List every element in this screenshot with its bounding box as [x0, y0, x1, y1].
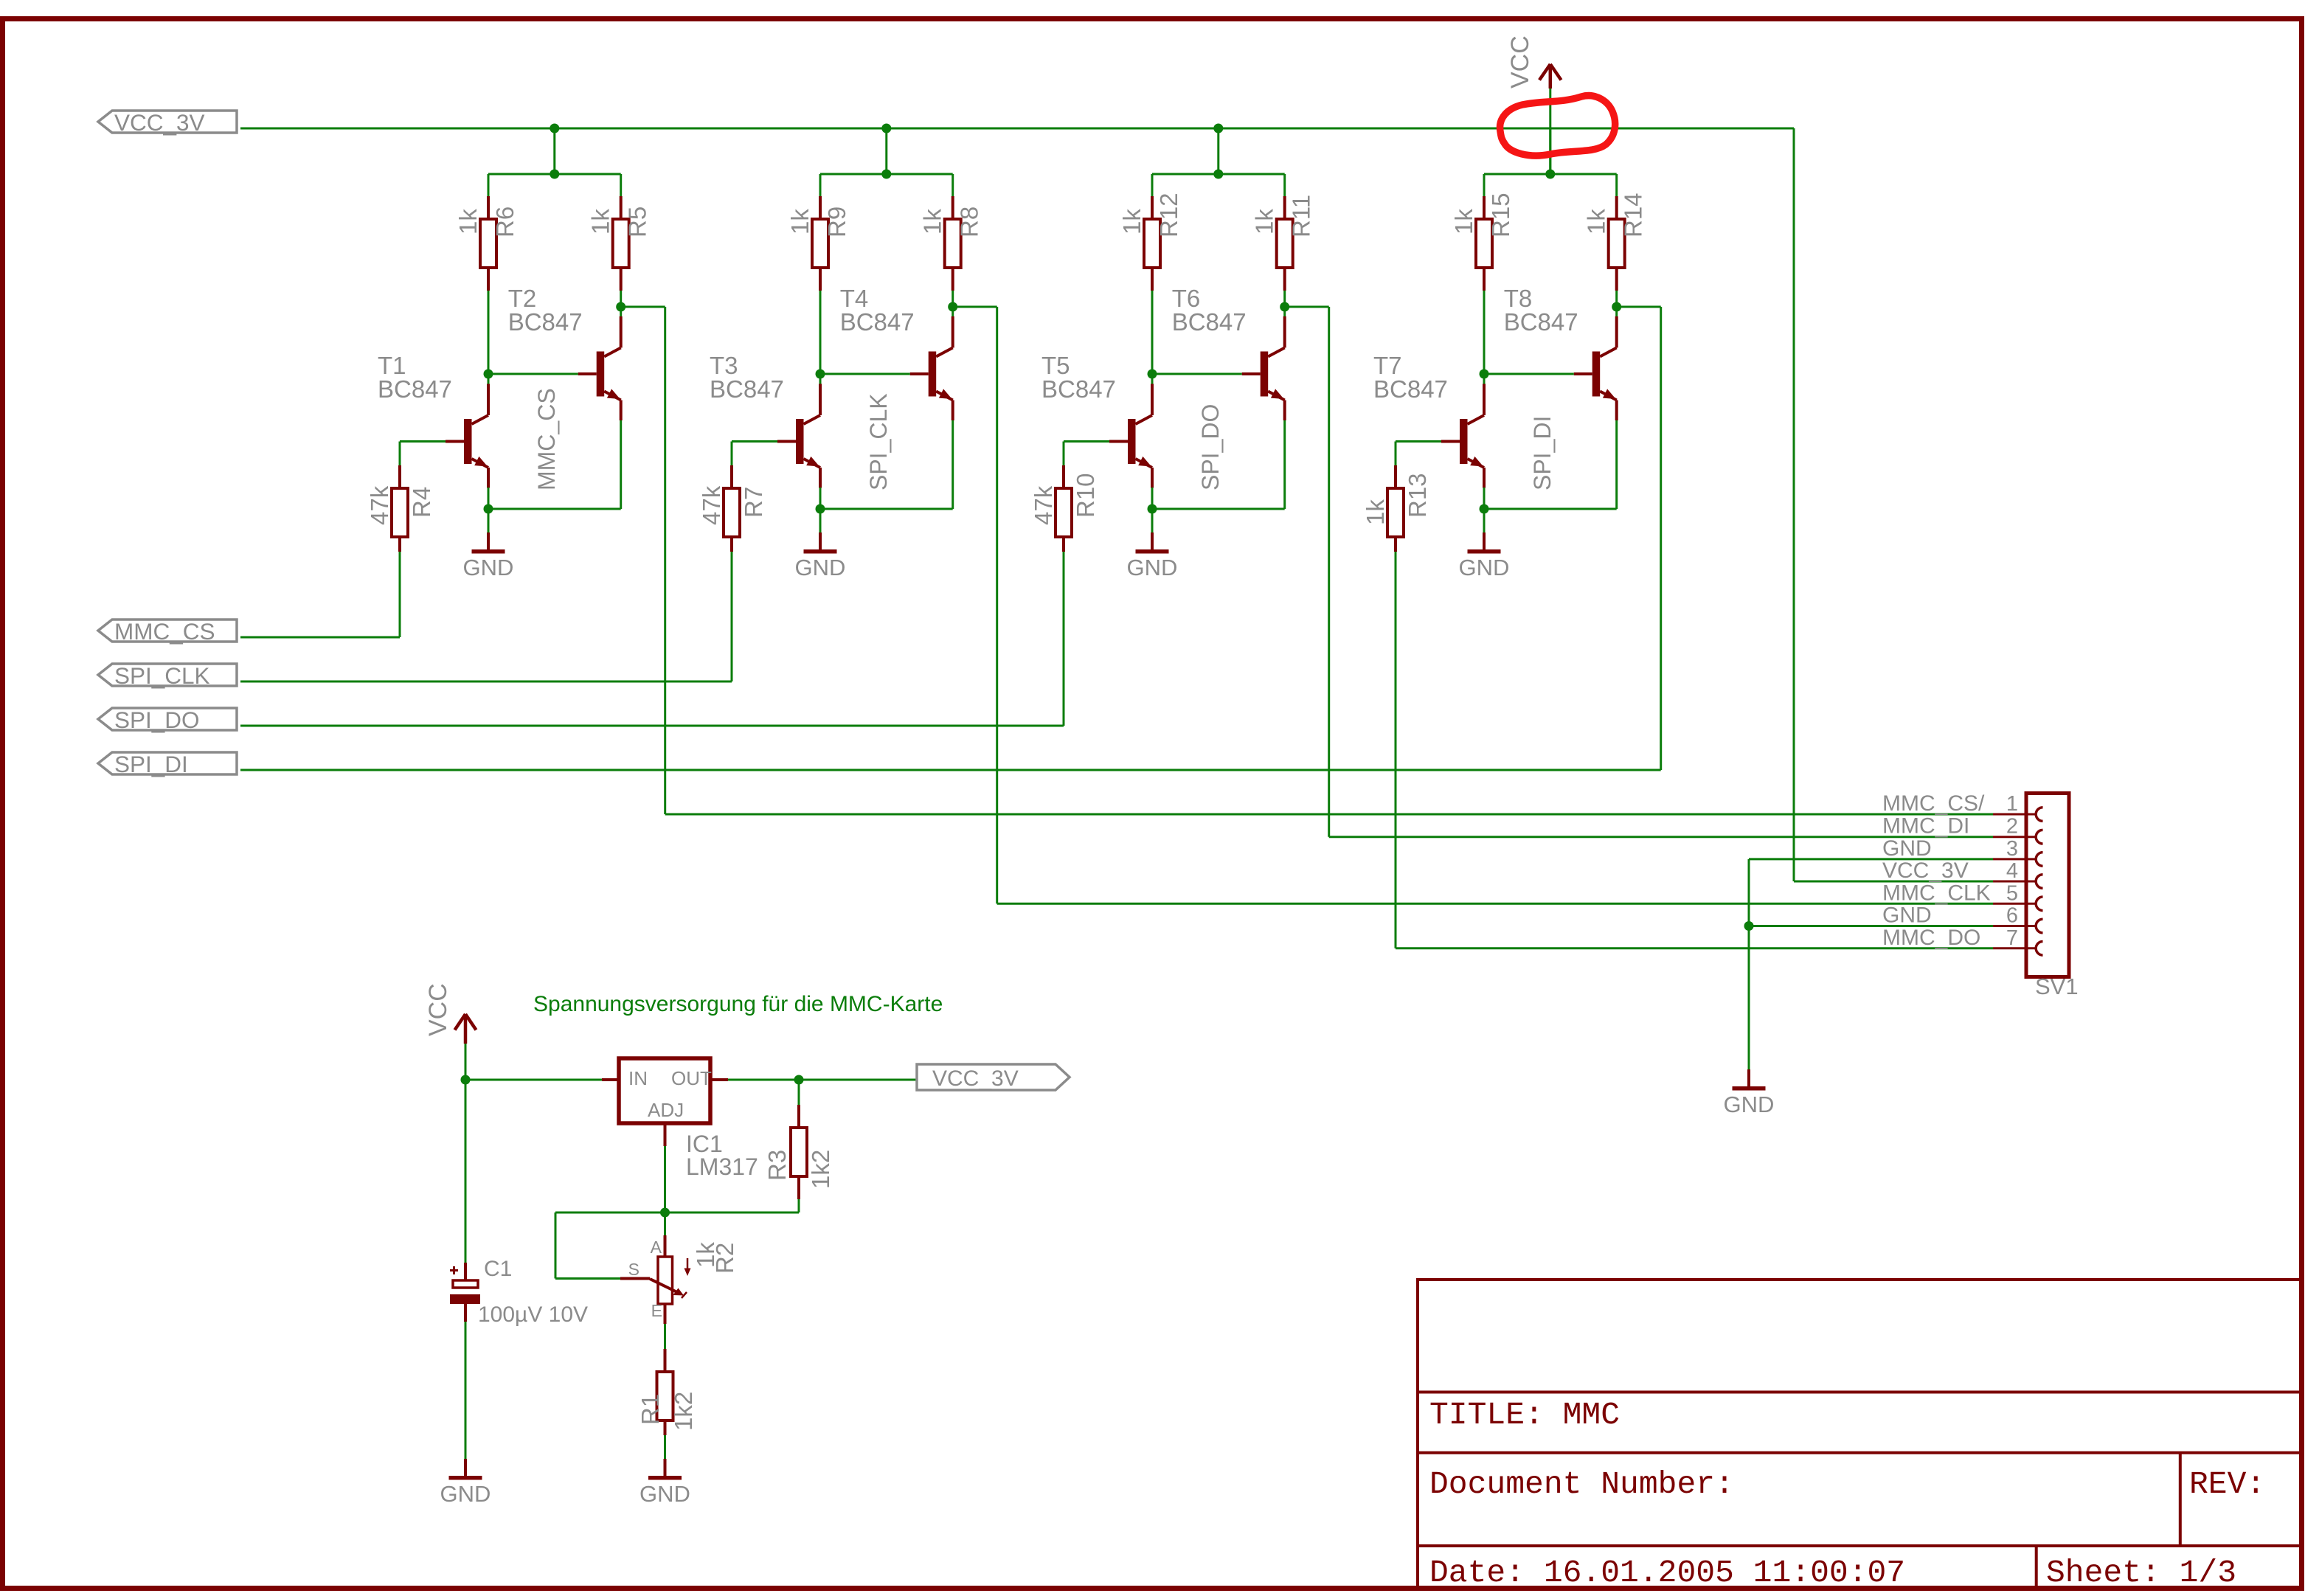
svg-text:BC847: BC847 — [840, 308, 915, 336]
wire base T7 — [1396, 440, 1441, 443]
ground — [465, 1435, 467, 1459]
svg-text:R3: R3 — [763, 1150, 791, 1181]
pin 5 MMC_CLK — [1993, 903, 2036, 905]
wire T1 collector to T2 base — [1152, 373, 1242, 375]
junction VCC_3V cell 2 — [881, 124, 891, 133]
wire down to R13 — [1395, 442, 1397, 466]
svg-text:Document Number:: Document Number: — [1429, 1466, 1734, 1502]
wire down to R10 — [1063, 442, 1065, 466]
wire T2 collector out — [621, 306, 665, 308]
svg-text:100µV 10V: 100µV 10V — [478, 1302, 588, 1327]
wire MMC_DI vertical — [1328, 307, 1330, 837]
wire cell rail — [820, 173, 953, 176]
wire down to R4 — [399, 442, 401, 466]
wire R8 to T4 collector — [952, 291, 954, 316]
junction ADJ — [660, 1208, 670, 1218]
wire emitters join — [820, 508, 953, 510]
wire to R5 — [620, 174, 622, 196]
svg-text:R2: R2 — [711, 1243, 738, 1274]
svg-text:IN: IN — [628, 1067, 648, 1089]
wire to R6 — [488, 174, 490, 196]
svg-text:GND: GND — [463, 555, 514, 580]
wire MMC_DI to SV1 pin 2 — [1329, 836, 1993, 838]
svg-text:BC847: BC847 — [1373, 375, 1448, 403]
resistor R12 body — [1144, 219, 1160, 268]
svg-text:MMC_DI: MMC_DI — [1882, 814, 1969, 839]
wire VCC to IN node — [465, 1044, 467, 1080]
wire R6 to T1 collector / T2 base — [488, 291, 490, 395]
svg-text:Spannungsversorgung für die MM: Spannungsversorgung für die MMC-Karte — [533, 992, 943, 1016]
svg-text:R13: R13 — [1404, 473, 1431, 518]
svg-text:MMC_DO: MMC_DO — [1882, 926, 1980, 950]
ground — [1483, 509, 1486, 532]
svg-text:E: E — [651, 1301, 662, 1320]
ground — [488, 509, 490, 532]
junction emitter node — [484, 504, 493, 514]
wire cell rail — [1152, 173, 1285, 176]
svg-text:S: S — [628, 1260, 639, 1279]
wire R2 to R1 — [664, 1324, 666, 1349]
wire to R12 — [1151, 174, 1154, 196]
voltage regulator IC1 LM317 — [619, 1058, 710, 1123]
wire MMC_CS/ vertical — [664, 307, 666, 814]
power symbol VCC (bottom left) — [464, 1014, 468, 1044]
wire MMC_CLK vertical — [996, 307, 998, 903]
svg-text:R4: R4 — [408, 487, 435, 518]
svg-text:1k: 1k — [1251, 209, 1278, 235]
wire T1 emitter down — [488, 488, 490, 509]
svg-text:R9: R9 — [823, 207, 850, 237]
svg-text:1k: 1k — [1450, 209, 1477, 235]
wire cell rail — [1484, 173, 1617, 176]
junction base node — [484, 369, 493, 379]
junction collector output — [616, 302, 625, 312]
svg-text:GND: GND — [795, 555, 846, 580]
svg-text:6: 6 — [2006, 904, 2018, 928]
svg-text:TITLE: MMC: TITLE: MMC — [1429, 1397, 1620, 1433]
svg-text:4: 4 — [2006, 859, 2018, 883]
svg-text:R14: R14 — [1620, 192, 1647, 237]
wire T2 emitter down — [952, 420, 954, 509]
trimmer R2 — [664, 1235, 667, 1257]
wire MMC_DO to SV1 pin 7 — [1396, 947, 1993, 949]
resistor R1 body — [657, 1372, 673, 1420]
wire MMC_CLK to SV1 pin 5 — [997, 903, 1993, 905]
wire VCC net vertical — [1549, 86, 1551, 174]
svg-text:GND: GND — [1882, 903, 1932, 928]
svg-text:MMC_CS/: MMC_CS/ — [1882, 791, 1985, 816]
wire cell supply drop — [553, 128, 555, 174]
wire SPI_CLK — [240, 681, 732, 683]
transistor T1 BC847 — [464, 419, 472, 464]
wire SPI_CLK up to R7 — [731, 552, 733, 681]
pin 4 VCC_3V — [1993, 881, 2036, 883]
resistor R5 body — [613, 219, 629, 268]
wire T4 collector out — [953, 306, 997, 308]
svg-text:SV1: SV1 — [2035, 974, 2079, 999]
transistor T5 BC847 — [1128, 419, 1136, 464]
junction base node — [1148, 369, 1157, 379]
wire SPI_DO — [240, 725, 1064, 727]
wire emitters join — [1484, 508, 1617, 510]
svg-text:A: A — [651, 1238, 662, 1257]
wire emitters join — [488, 508, 621, 510]
svg-text:GND: GND — [440, 1481, 491, 1507]
svg-text:2: 2 — [2006, 815, 2018, 839]
annotation: red hand-drawn circle around VCC/VCC_3V crossing — [1500, 96, 1615, 156]
pin 1 MMC_CS/ — [1993, 813, 2036, 816]
net flag SPI_CLK — [98, 664, 237, 686]
wire R3 to ADJ node — [798, 1199, 800, 1212]
svg-text:1k: 1k — [786, 209, 814, 235]
resistor R1 — [664, 1349, 667, 1372]
junction emitter node — [1480, 504, 1489, 514]
svg-text:MMC_CLK: MMC_CLK — [1882, 881, 1991, 905]
resistor R10 body — [1056, 488, 1072, 537]
wire base T3 — [732, 440, 777, 443]
svg-text:1k: 1k — [1118, 209, 1145, 235]
svg-text:VCC_3V: VCC_3V — [114, 109, 205, 136]
wire cell supply drop — [1549, 128, 1551, 174]
svg-text:BC847: BC847 — [1504, 308, 1578, 336]
wire cell rail — [488, 173, 621, 176]
svg-text:MMC_CS: MMC_CS — [114, 618, 215, 645]
resistor R3 body — [791, 1128, 807, 1176]
resistor R7 body — [724, 488, 740, 537]
wire emitters join — [1152, 508, 1285, 510]
wire T8 collector out — [1617, 306, 1661, 308]
net flag SPI_DO — [98, 708, 237, 730]
junction VCC/C1/IN — [461, 1075, 471, 1085]
junction base node — [816, 369, 825, 379]
title block frame — [1418, 1280, 2302, 1589]
svg-text:GND: GND — [1724, 1092, 1775, 1117]
resistor R6 body — [480, 219, 496, 268]
svg-text:1k: 1k — [1362, 499, 1389, 525]
wire R9 to T3 collector / T4 base — [819, 291, 822, 395]
svg-text:R7: R7 — [740, 487, 767, 518]
wire cell supply drop — [885, 128, 887, 174]
svg-text:1k: 1k — [1583, 209, 1610, 235]
net flag SPI_DI — [98, 752, 237, 774]
wire SPI_DO up to R10 — [1063, 552, 1065, 726]
wire SPI_DI up to T8 collector — [1660, 307, 1662, 770]
svg-text:47k: 47k — [1030, 485, 1057, 525]
svg-text:VCC: VCC — [1506, 35, 1534, 89]
svg-text:SPI_DO: SPI_DO — [114, 707, 200, 733]
svg-text:GND: GND — [1459, 555, 1510, 580]
wire ADJ down — [664, 1146, 666, 1235]
svg-text:1k2: 1k2 — [670, 1392, 697, 1431]
junction cell rail — [1545, 170, 1555, 179]
svg-text:R15: R15 — [1487, 192, 1514, 237]
junction VCC_3V cell 3 — [1213, 124, 1223, 133]
resistor R8 body — [945, 219, 961, 268]
wire MMC_CS/ to SV1 pin 1 — [665, 813, 1993, 816]
junction emitter node — [816, 504, 825, 514]
transistor T4 BC847 — [929, 352, 937, 397]
wire GND to SV1 pin 6 — [1749, 925, 1993, 927]
svg-text:GND: GND — [1127, 555, 1178, 580]
wire cell supply drop — [1217, 128, 1219, 174]
wire OUT node — [728, 1079, 917, 1081]
svg-text:SPI_CLK: SPI_CLK — [865, 393, 892, 490]
svg-text:R12: R12 — [1155, 192, 1182, 237]
svg-text:R6: R6 — [491, 207, 519, 237]
wire to R8 — [952, 174, 954, 196]
svg-text:LM317: LM317 — [686, 1153, 758, 1180]
svg-text:R8: R8 — [956, 207, 983, 237]
svg-text:R1: R1 — [637, 1394, 664, 1425]
svg-text:R5: R5 — [624, 207, 651, 237]
transistor T2 BC847 — [597, 352, 605, 397]
svg-text:R11: R11 — [1288, 195, 1315, 237]
svg-text:Sheet: 1/3: Sheet: 1/3 — [2046, 1555, 2236, 1591]
wire R14 to T8 collector — [1615, 291, 1618, 316]
transistor T8 BC847 — [1592, 352, 1601, 397]
wire T1 collector to T2 base — [488, 373, 578, 375]
wire to R2 wiper — [555, 1212, 557, 1279]
wire base T1 — [400, 440, 446, 443]
junction OUT/R3 — [794, 1075, 804, 1085]
svg-text:BC847: BC847 — [508, 308, 583, 336]
svg-text:SPI_DO: SPI_DO — [1197, 404, 1224, 490]
svg-text:47k: 47k — [366, 485, 393, 525]
wire to R14 — [1615, 174, 1618, 196]
wire GND vertical — [1748, 859, 1750, 1069]
resistor R14 body — [1609, 219, 1625, 268]
svg-text:1k: 1k — [587, 209, 614, 235]
svg-text:5: 5 — [2006, 881, 2018, 905]
wire SPI_DI horizontal — [240, 769, 1661, 771]
transistor T3 BC847 — [796, 419, 804, 464]
pin 7 MMC_DO — [1993, 947, 2036, 949]
resistor R13 body — [1387, 488, 1404, 537]
svg-text:SPI_DI: SPI_DI — [1529, 416, 1556, 490]
wire VCC_3V to SV1 pin 4 — [1794, 881, 1993, 883]
svg-text:1k2: 1k2 — [807, 1150, 834, 1189]
ADJ node — [664, 1123, 667, 1146]
wire VCC_3V right drop — [1793, 128, 1795, 881]
wire T6 collector out — [1285, 306, 1329, 308]
junction GND pin 6 — [1744, 921, 1754, 931]
svg-text:REV:: REV: — [2189, 1466, 2265, 1502]
wire R11 to T6 collector — [1283, 291, 1286, 316]
svg-text:ADJ: ADJ — [648, 1099, 684, 1121]
junction emitter node — [1148, 504, 1157, 514]
net flag MMC_CS — [98, 620, 237, 642]
svg-text:VCC: VCC — [424, 983, 452, 1036]
ground — [1151, 509, 1154, 532]
junction cell rail — [1213, 170, 1223, 179]
svg-text:BC847: BC847 — [1041, 375, 1116, 403]
wire ADJ node horizontal — [555, 1212, 799, 1214]
wire T1 collector to T2 base — [820, 373, 910, 375]
wire C1 to GND — [465, 1322, 467, 1435]
svg-text:VCC_3V: VCC_3V — [932, 1066, 1019, 1091]
wire T1 collector to T2 base — [1484, 373, 1574, 375]
svg-text:SPI_DI: SPI_DI — [114, 751, 188, 777]
connector SV1 — [2026, 794, 2069, 977]
wire T1 emitter down — [1151, 488, 1154, 509]
wire R5 to T2 collector — [620, 291, 622, 316]
junction collector output — [1280, 302, 1289, 312]
svg-text:3: 3 — [2006, 837, 2018, 861]
wire T2 emitter down — [1615, 420, 1618, 509]
wire to R9 — [819, 174, 822, 196]
pin 6 GND — [1993, 925, 2036, 927]
svg-text:7: 7 — [2006, 926, 2018, 950]
svg-text:Date: 16.01.2005 11:00:07: Date: 16.01.2005 11:00:07 — [1429, 1555, 1905, 1591]
resistor R15 body — [1476, 219, 1492, 268]
wire base T5 — [1064, 440, 1109, 443]
ground — [664, 1435, 666, 1459]
svg-text:SPI_CLK: SPI_CLK — [114, 662, 210, 689]
junction collector output — [948, 302, 957, 312]
wire T1 emitter down — [819, 488, 822, 509]
resistor R9 body — [812, 219, 828, 268]
wire to R3 — [798, 1080, 800, 1105]
wire wiper horizontal — [555, 1277, 620, 1280]
svg-text:C1: C1 — [484, 1257, 512, 1281]
wire to R15 — [1483, 174, 1486, 196]
pin 2 MMC_DI — [1993, 836, 2036, 838]
svg-text:BC847: BC847 — [710, 375, 784, 403]
resistor R4 body — [392, 488, 408, 537]
net flag VCC_3V — [98, 111, 237, 133]
wire VCC_3V main rail — [240, 128, 1794, 130]
junction collector output — [1612, 302, 1621, 312]
ground — [1748, 1046, 1750, 1069]
svg-text:1: 1 — [2006, 792, 2018, 816]
wire MMC_CS — [240, 636, 400, 639]
wire MMC_DO vertical from R13 — [1395, 552, 1397, 948]
svg-text:1k: 1k — [454, 209, 482, 235]
wire to R11 — [1283, 174, 1286, 196]
svg-text:BC847: BC847 — [378, 375, 452, 403]
junction base node — [1480, 369, 1489, 379]
wire to IC1 IN — [465, 1079, 602, 1081]
wire T1 emitter down — [1483, 488, 1486, 509]
junction cell rail — [550, 170, 559, 179]
wire to C1 — [465, 1080, 467, 1263]
svg-text:OUT: OUT — [671, 1067, 712, 1089]
ground — [819, 509, 822, 532]
svg-text:GND: GND — [639, 1481, 690, 1507]
junction VCC_3V cell 1 — [550, 124, 559, 133]
svg-text:R10: R10 — [1072, 473, 1099, 518]
svg-text:1k: 1k — [919, 209, 946, 235]
net flag VCC_3V (output) — [917, 1064, 1070, 1090]
wire down to R7 — [731, 442, 733, 466]
wire MMC_CS up to R4 — [399, 552, 401, 637]
svg-text:GND: GND — [1882, 836, 1932, 861]
svg-text:VCC_3V: VCC_3V — [1882, 858, 1969, 883]
junction cell rail — [881, 170, 891, 179]
wire T2 emitter down — [1283, 420, 1286, 509]
wire R12 to T5 collector / T6 base — [1151, 291, 1154, 395]
svg-text:BC847: BC847 — [1172, 308, 1247, 336]
wire R15 to T7 collector / T8 base — [1483, 291, 1486, 395]
svg-text:MMC_CS: MMC_CS — [533, 388, 560, 490]
pin 3 GND — [1993, 858, 2036, 860]
resistor R11 body — [1277, 219, 1293, 268]
transistor T7 BC847 — [1460, 419, 1468, 464]
wire GND to SV1 pin 3 — [1749, 858, 1993, 860]
transistor T6 BC847 — [1261, 352, 1269, 397]
svg-text:47k: 47k — [698, 485, 725, 525]
wire T2 emitter down — [620, 420, 622, 509]
